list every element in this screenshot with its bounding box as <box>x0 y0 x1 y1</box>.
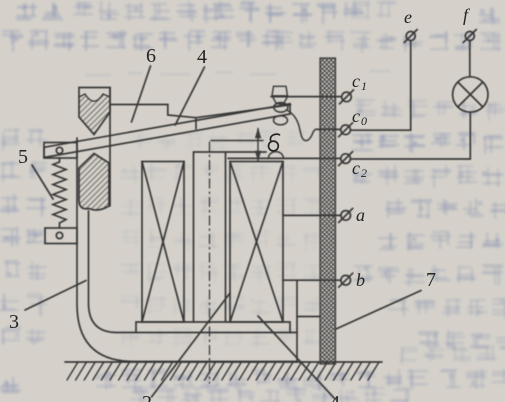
leader for label 4 <box>175 67 204 125</box>
svg-text:5: 5 <box>18 146 28 168</box>
wire c1 <box>271 96 342 98</box>
terminal e <box>404 30 417 43</box>
armature left-end bracket <box>44 143 77 159</box>
contact spring strip on armature <box>196 105 291 129</box>
leader to bottom label 2 <box>152 293 231 397</box>
terminal c0 <box>339 123 353 137</box>
terminal f <box>463 30 476 43</box>
ground <box>65 361 382 363</box>
leader for label 3 <box>25 281 86 311</box>
flexible lead to c0 <box>288 111 321 141</box>
delta gap dimension <box>211 129 263 161</box>
svg-text:3: 3 <box>9 311 19 333</box>
svg-text:a: a <box>356 205 365 225</box>
coil right winding <box>230 162 283 323</box>
svg-text:2: 2 <box>142 392 152 402</box>
leader for label 7 <box>336 291 421 330</box>
lamp <box>453 77 488 112</box>
upper hinge block (hatched) <box>79 88 110 135</box>
upper fixed contact assembly on c1 wire <box>272 86 288 104</box>
svg-text:c: c <box>352 71 360 91</box>
svg-text:e: e <box>404 7 412 27</box>
moving contact rivet lower head <box>274 116 288 125</box>
moving contact rivet upper head <box>274 103 288 113</box>
yoke 3 : L-shaped frame <box>77 138 296 362</box>
core <box>194 152 267 322</box>
svg-text:c: c <box>352 158 360 178</box>
ground hatching <box>67 362 379 380</box>
terminal c1 <box>340 90 354 104</box>
wire from f to lamp <box>469 41 471 77</box>
leader to bottom label 1 <box>258 316 335 399</box>
coil left winding <box>142 162 184 323</box>
label delta <box>269 134 280 151</box>
core centerline <box>209 142 211 383</box>
spring 5 <box>53 158 66 228</box>
hinge bracket rectangle (label 6 target) <box>110 105 196 118</box>
terminal b <box>339 273 353 287</box>
wire a <box>283 214 341 216</box>
coil bobbin flange <box>136 322 290 333</box>
leader for label 5 <box>32 165 53 199</box>
wire from e down to c0 <box>410 41 412 131</box>
svg-text:0: 0 <box>361 114 367 128</box>
svg-text:6: 6 <box>146 45 156 67</box>
fixed contact dome on c2 wire <box>268 152 283 159</box>
wire c2 left <box>228 157 341 159</box>
armature 4 <box>44 104 290 158</box>
svg-text:4: 4 <box>330 392 340 402</box>
coil terminal support block <box>297 281 320 362</box>
svg-text:1: 1 <box>361 79 367 93</box>
terminal c2 <box>339 152 353 166</box>
terminal a <box>339 208 353 222</box>
terminal board 7 <box>320 58 336 364</box>
leader for label 6 <box>132 66 151 122</box>
svg-text:7: 7 <box>426 269 436 291</box>
svg-text:4: 4 <box>197 46 207 68</box>
svg-text:c: c <box>352 106 360 126</box>
wire b <box>283 279 341 281</box>
wire c0 left <box>317 128 341 130</box>
spring bottom bracket <box>45 228 77 244</box>
lower hinge block (hatched) <box>79 154 109 211</box>
hinge column right edge <box>109 88 111 207</box>
svg-text:b: b <box>356 270 365 290</box>
wire from lamp down to c2 <box>469 112 471 159</box>
svg-text:2: 2 <box>361 166 367 180</box>
wire c2 right to lamp wire <box>350 158 470 160</box>
wire c0 right to e-wire <box>350 129 410 131</box>
